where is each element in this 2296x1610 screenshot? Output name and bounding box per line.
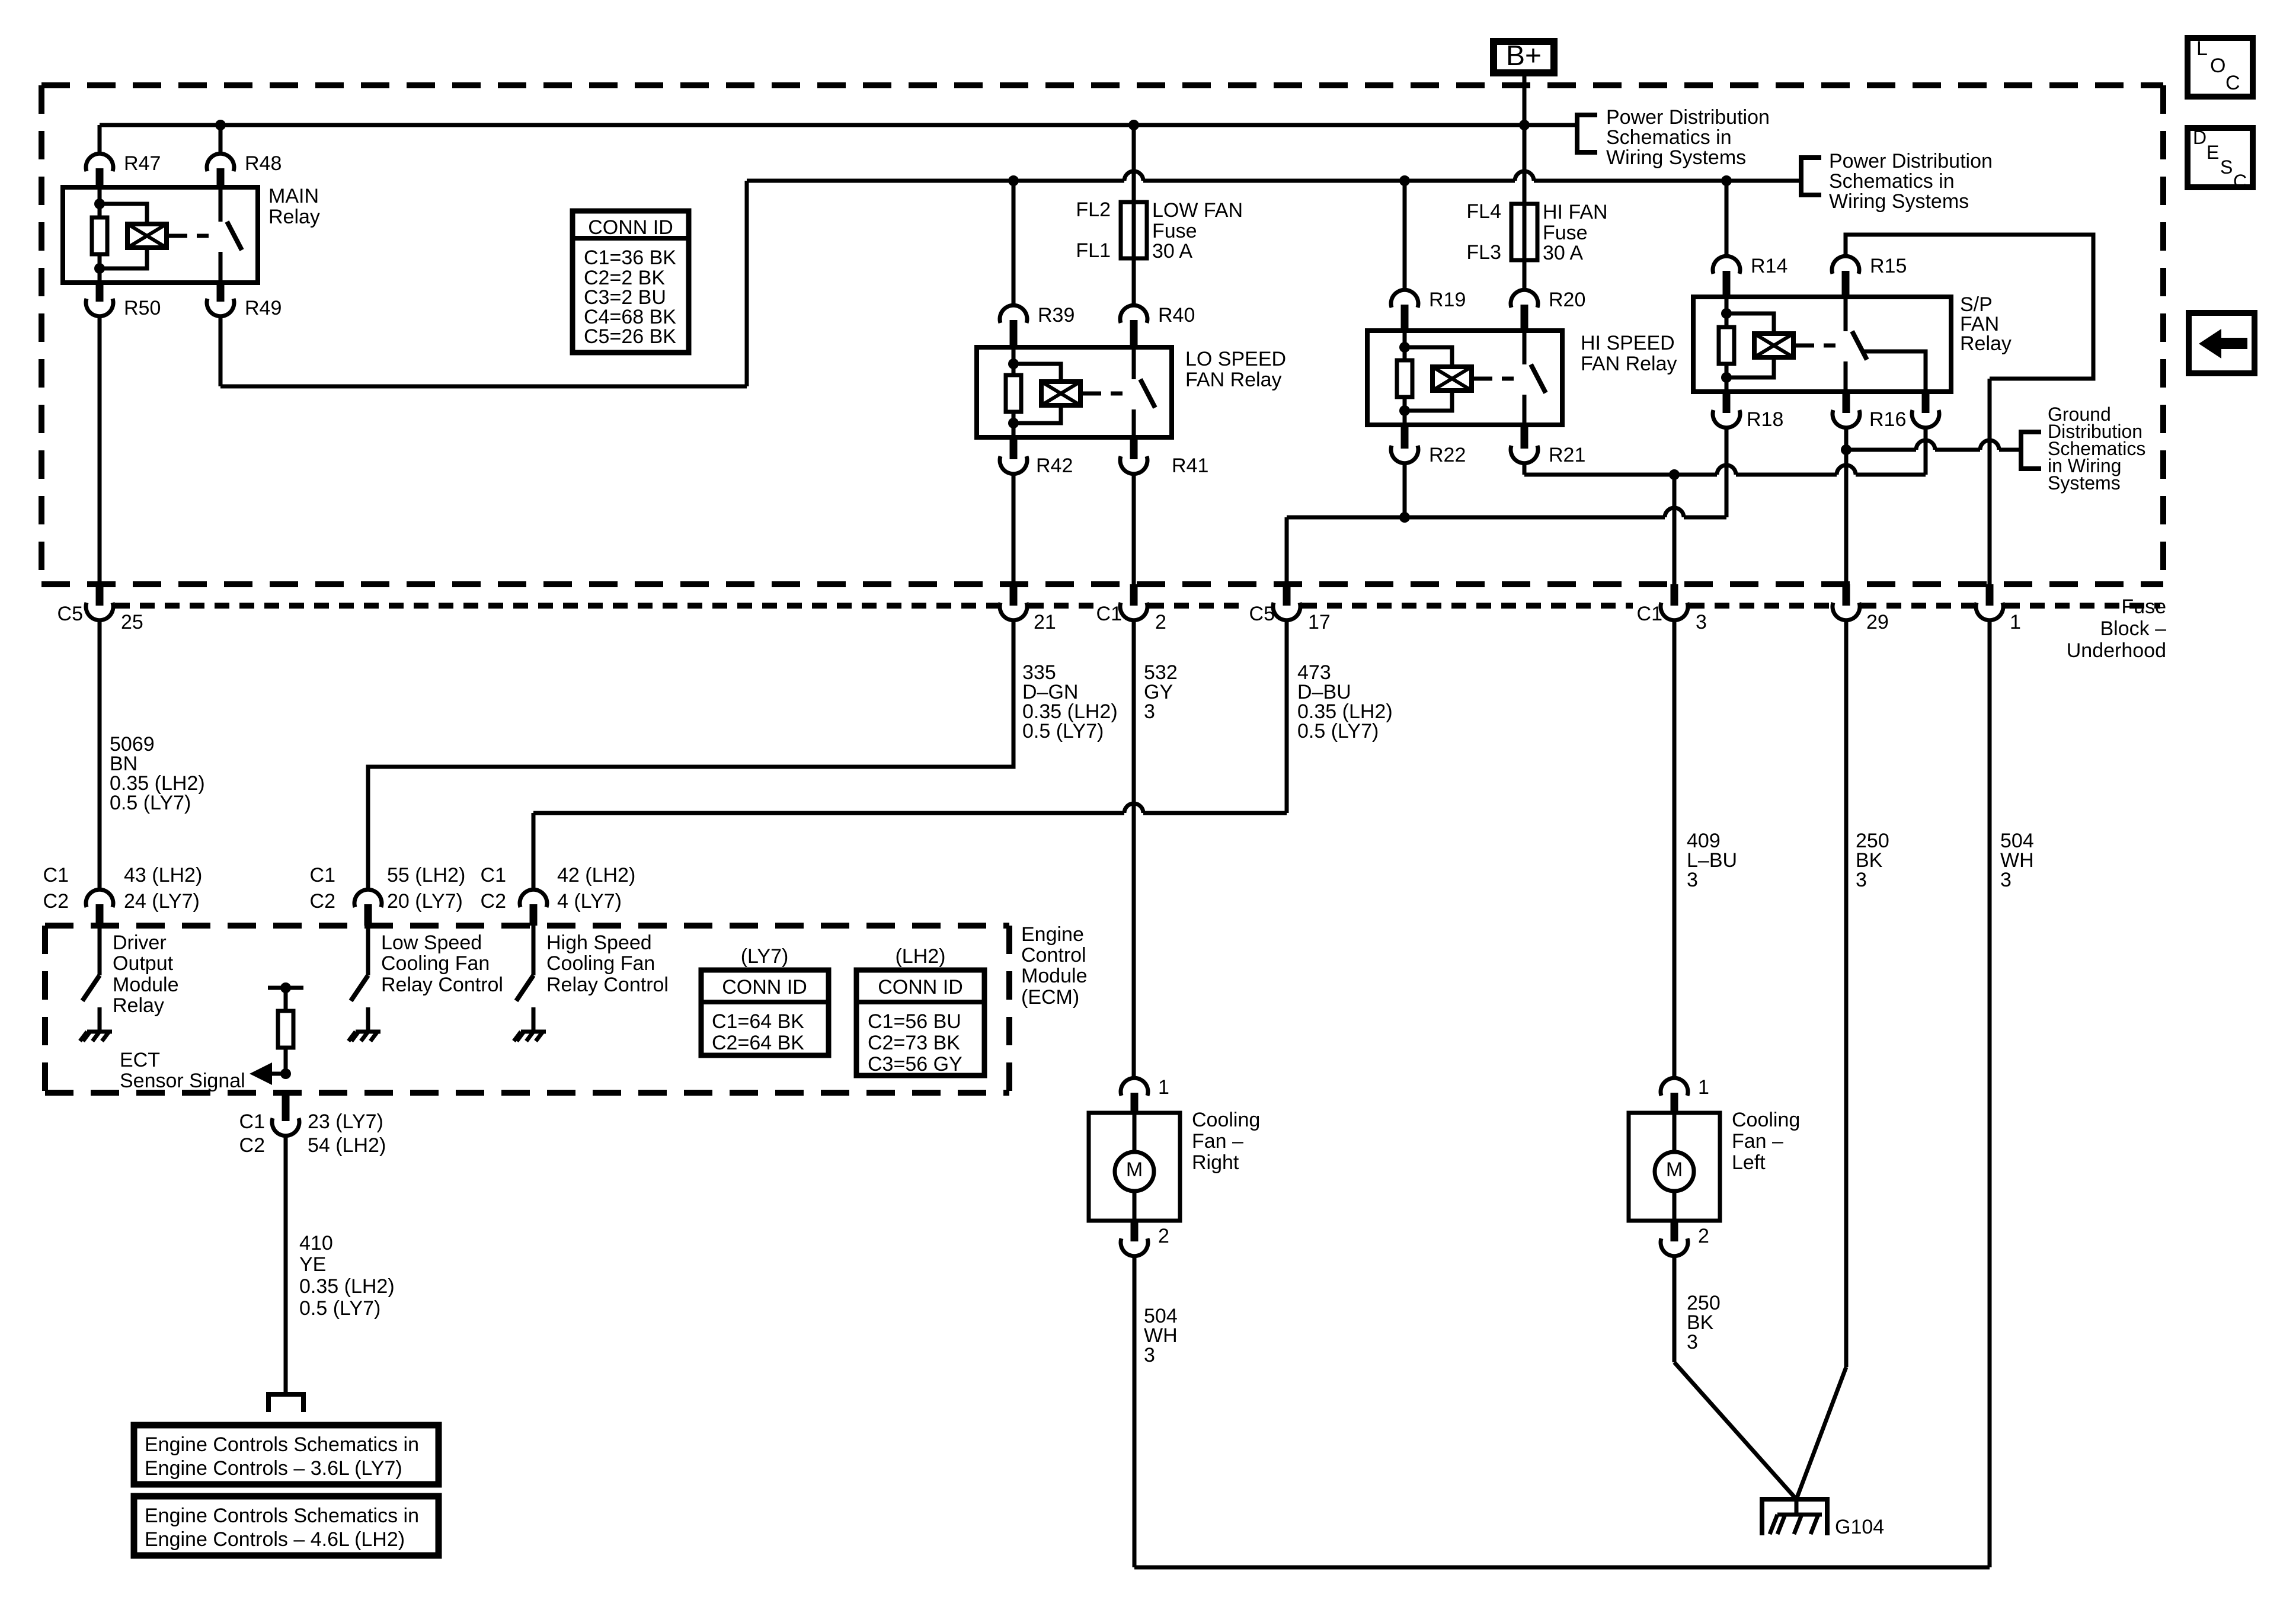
- svg-text:CONN ID: CONN ID: [722, 976, 807, 998]
- svg-text:0.5 (LY7): 0.5 (LY7): [1022, 720, 1104, 742]
- svg-text:C1=36 BK: C1=36 BK: [584, 247, 676, 269]
- svg-text:Module: Module: [113, 974, 179, 996]
- pin 29: [1843, 584, 1850, 606]
- svg-text:1: 1: [1698, 1076, 1709, 1099]
- svg-text:23 (LY7): 23 (LY7): [308, 1110, 383, 1133]
- svg-text:410: 410: [299, 1232, 333, 1254]
- svg-text:Block –: Block –: [2100, 617, 2167, 640]
- svg-text:Fuse: Fuse: [1152, 220, 1197, 242]
- LO SPEED relay actuator dashed link: [1089, 392, 1127, 396]
- svg-text:Engine: Engine: [1021, 923, 1084, 946]
- pin R19: [1391, 290, 1418, 308]
- ECT signal node dot: [280, 1068, 291, 1079]
- driver output module relay ground stub: [98, 1007, 102, 1032]
- MAIN relay switch output contact: [219, 252, 223, 283]
- relay MAIN Relay box: [63, 187, 258, 283]
- pin R16: [1843, 392, 1850, 413]
- svg-text:1: 1: [1158, 1076, 1169, 1099]
- svg-text:R49: R49: [245, 297, 282, 319]
- svg-text:25: 25: [121, 611, 143, 633]
- HI SPEED relay internal node dot upper: [1399, 342, 1410, 353]
- svg-text:Relay: Relay: [268, 206, 320, 228]
- svg-text:Underhood: Underhood: [2067, 639, 2166, 662]
- svg-text:29: 29: [1866, 611, 1889, 633]
- svg-text:C3=56 GY: C3=56 GY: [868, 1053, 962, 1076]
- MAIN relay coil-side wire: [98, 187, 102, 283]
- wire 5069 BN from pin 25 to ECM relay pin: [98, 619, 102, 891]
- S/P relay internal node dot lower: [1721, 372, 1732, 383]
- pin R47: [86, 153, 113, 171]
- pin C5-17: [1283, 584, 1291, 606]
- wire 250 BK from left fan pin 2 to G104: [1673, 1255, 1677, 1362]
- wire bus1 down to pin R47: [98, 125, 102, 155]
- svg-text:30 A: 30 A: [1543, 242, 1583, 264]
- svg-text:LOW FAN: LOW FAN: [1152, 199, 1243, 222]
- reference box Engine Controls 3.6L LY7: [134, 1425, 439, 1484]
- off-page bracket Power Distribution (bus 1): [1577, 115, 1597, 152]
- svg-text:Schematics in: Schematics in: [1829, 170, 1955, 193]
- ECT sensor pull-up bar: [268, 986, 303, 990]
- svg-text:CONN ID: CONN ID: [588, 216, 673, 239]
- svg-text:Cooling: Cooling: [1192, 1109, 1260, 1131]
- svg-text:0.5 (LY7): 0.5 (LY7): [299, 1297, 380, 1320]
- pin 2 of Cooling Fan - Left: [1671, 1221, 1678, 1241]
- svg-text:CONN ID: CONN ID: [878, 976, 963, 998]
- svg-text:FAN Relay: FAN Relay: [1581, 353, 1677, 375]
- ground G104 symbol: [1762, 1499, 1827, 1535]
- svg-text:Engine Controls Schematics in: Engine Controls Schematics in: [145, 1505, 419, 1527]
- driver output module relay switch blade: [82, 975, 100, 1001]
- svg-text:Power Distribution: Power Distribution: [1829, 150, 1993, 172]
- junction dot bus1 / B+: [1519, 120, 1530, 130]
- pin R50: [96, 283, 104, 302]
- S/P relay switch output contact: [1844, 361, 1848, 392]
- pin R42: [1010, 437, 1018, 459]
- svg-text:R18: R18: [1747, 408, 1783, 431]
- wire ground node to Ground Distribution bracket: [1846, 448, 1916, 452]
- svg-text:Relay Control: Relay Control: [381, 974, 503, 996]
- wire B+ node down to fuse FL4: [1523, 125, 1527, 204]
- wire 504 WH from pin 1 down right side: [1988, 619, 1992, 1567]
- wire riser up to bus 2: [745, 181, 749, 386]
- svg-text:3: 3: [1687, 1331, 1698, 1353]
- svg-text:2: 2: [1698, 1225, 1709, 1247]
- svg-text:C5: C5: [57, 603, 83, 625]
- svg-text:Fan –: Fan –: [1732, 1130, 1783, 1153]
- reference box Engine Controls 4.6L LH2: [134, 1496, 439, 1555]
- high speed cooling fan relay control switch blade: [516, 975, 533, 1001]
- CONN ID table LY7: [701, 970, 829, 1055]
- pin R15: [1832, 256, 1859, 274]
- wire B+ down to bus 1: [1523, 76, 1527, 125]
- svg-text:M: M: [1666, 1158, 1683, 1181]
- low speed cooling fan relay control ground stub: [366, 1007, 370, 1032]
- svg-text:1: 1: [2010, 611, 2021, 633]
- S/P relay coil: [1754, 334, 1793, 357]
- wire 250 BK right branch diagonal to G104: [1796, 1367, 1846, 1499]
- HI SPEED relay internal node dot lower: [1399, 405, 1410, 416]
- svg-text:FAN Relay: FAN Relay: [1185, 369, 1282, 391]
- svg-text:2: 2: [1158, 1225, 1169, 1247]
- svg-text:C5: C5: [1249, 603, 1275, 625]
- svg-text:C2=64 BK: C2=64 BK: [712, 1032, 804, 1054]
- wire bus1 down to pin R48: [219, 125, 223, 155]
- fuse block connector row dotted line: [115, 603, 998, 609]
- MAIN relay actuator dashed link: [175, 234, 213, 238]
- svg-text:0.35 (LH2): 0.35 (LH2): [299, 1275, 395, 1298]
- svg-text:L: L: [2196, 37, 2208, 60]
- svg-text:Systems: Systems: [2048, 472, 2121, 494]
- svg-text:Sensor Signal: Sensor Signal: [120, 1070, 245, 1092]
- svg-text:Fan –: Fan –: [1192, 1130, 1243, 1153]
- svg-text:R40: R40: [1158, 304, 1195, 327]
- svg-text:C1: C1: [310, 864, 335, 886]
- pin ECM C1-43 / C2-24: [98, 889, 102, 893]
- svg-text:Wiring Systems: Wiring Systems: [1829, 190, 1969, 213]
- wire 250 BK from pin 29 toward G104: [1844, 619, 1849, 1367]
- motor Cooling Fan - Right M symbol: [1133, 1113, 1137, 1152]
- fuse LOW FAN Fuse 30 A (FL2/FL1): [1132, 202, 1136, 258]
- MAIN relay coil loop wire: [100, 204, 147, 268]
- svg-text:Relay: Relay: [113, 994, 164, 1017]
- svg-text:0.5 (LY7): 0.5 (LY7): [1297, 720, 1379, 742]
- junction dot bus1 / FL2 fuse feed: [1128, 120, 1139, 130]
- svg-text:R22: R22: [1429, 444, 1466, 466]
- svg-text:M: M: [1126, 1158, 1143, 1181]
- S/P relay internal resistor: [1719, 327, 1734, 364]
- svg-text:Low Speed: Low Speed: [381, 932, 482, 954]
- wire fuse FL1 down to pin R40: [1132, 258, 1136, 306]
- svg-text:Fuse: Fuse: [2121, 596, 2166, 618]
- motor Cooling Fan - Left M symbol: [1673, 1113, 1677, 1152]
- svg-text:Cooling Fan: Cooling Fan: [546, 952, 655, 975]
- svg-text:Wiring Systems: Wiring Systems: [1606, 146, 1746, 169]
- svg-text:Cooling Fan: Cooling Fan: [381, 952, 490, 975]
- S/P relay switch output branch wire: [1864, 351, 1926, 392]
- fuse HI FAN Fuse 30 A (FL4/FL3): [1523, 204, 1527, 260]
- wire R42 down to fuse block pin 21: [1012, 473, 1016, 584]
- svg-text:2: 2: [1155, 611, 1166, 633]
- svg-text:FL2: FL2: [1076, 199, 1111, 221]
- svg-text:C2: C2: [310, 890, 335, 913]
- svg-text:C2: C2: [239, 1134, 265, 1157]
- high speed cooling fan relay control switch wire: [532, 926, 536, 975]
- S/P relay coil actuator stub: [1793, 344, 1802, 348]
- svg-text:FL3: FL3: [1466, 241, 1501, 264]
- svg-text:3: 3: [1696, 611, 1707, 633]
- wire bus2 down to pin R39: [1012, 181, 1016, 306]
- svg-text:21: 21: [1034, 611, 1056, 633]
- junction dot R16 ground node: [1841, 444, 1851, 455]
- low speed cooling fan relay control switch blade: [351, 975, 368, 1001]
- DESC reference box: [2188, 128, 2253, 187]
- HI SPEED relay coil loop wire: [1405, 347, 1452, 411]
- svg-text:R20: R20: [1549, 289, 1585, 311]
- pin R20: [1511, 290, 1538, 308]
- svg-text:Engine Controls – 4.6L (LH2): Engine Controls – 4.6L (LH2): [145, 1528, 405, 1551]
- wire R18 down to control node: [1725, 427, 1729, 517]
- MAIN relay coil: [127, 224, 167, 248]
- svg-text:(LH2): (LH2): [895, 945, 945, 968]
- pin R18: [1723, 392, 1731, 413]
- svg-text:G104: G104: [1835, 1516, 1884, 1538]
- junction dot bus1 / R48: [215, 120, 226, 130]
- svg-text:YE: YE: [299, 1253, 326, 1276]
- svg-text:R50: R50: [124, 297, 161, 319]
- svg-text:20 (LY7): 20 (LY7): [387, 890, 463, 913]
- low speed cooling fan relay control switch wire: [366, 926, 370, 975]
- junction dot bus2 / R39: [1008, 175, 1019, 186]
- MAIN relay switch fixed contact: [219, 187, 223, 222]
- CONN ID table LH2: [856, 970, 984, 1076]
- pin R48: [207, 153, 234, 171]
- svg-text:(LY7): (LY7): [741, 945, 789, 968]
- svg-text:C1=56 BU: C1=56 BU: [868, 1010, 961, 1033]
- svg-text:Cooling: Cooling: [1732, 1109, 1800, 1131]
- svg-text:C1: C1: [1637, 603, 1662, 625]
- MAIN relay internal node dot upper: [94, 199, 105, 209]
- ECT node dot upper: [280, 982, 291, 993]
- svg-text:Relay Control: Relay Control: [546, 974, 669, 996]
- svg-text:C1=64 BK: C1=64 BK: [712, 1010, 804, 1033]
- motor Cooling Fan - Right box: [1089, 1113, 1180, 1221]
- S/P relay coil-side wire: [1725, 297, 1729, 392]
- svg-text:C1: C1: [239, 1110, 265, 1133]
- pin ECM C1-55 / C2-20: [354, 889, 382, 907]
- Fuse Block - Underhood dashed boundary box: [41, 82, 2163, 88]
- svg-text:High Speed: High Speed: [546, 932, 652, 954]
- LO SPEED relay coil: [1041, 382, 1080, 405]
- svg-text:3: 3: [1687, 869, 1698, 891]
- HI SPEED relay switch blade: [1531, 364, 1546, 393]
- HI SPEED relay coil-side wire: [1403, 331, 1407, 425]
- svg-text:3: 3: [1144, 700, 1155, 723]
- wire R22 down to control node: [1403, 462, 1407, 517]
- svg-text:24 (LY7): 24 (LY7): [124, 890, 200, 913]
- svg-text:FL4: FL4: [1466, 200, 1501, 223]
- svg-text:O: O: [2210, 55, 2225, 77]
- B+ battery feed box: [1494, 41, 1554, 73]
- svg-text:17: 17: [1308, 611, 1331, 633]
- svg-text:(ECM): (ECM): [1021, 986, 1079, 1009]
- svg-text:R15: R15: [1870, 255, 1907, 277]
- wire R15 feed loop from fuse block pin 1: [1846, 235, 2093, 379]
- pin 1: [1986, 584, 1994, 606]
- svg-text:3: 3: [2000, 869, 2012, 891]
- pin R21: [1521, 425, 1528, 449]
- svg-text:R19: R19: [1429, 289, 1466, 311]
- pin C1-3: [1671, 584, 1678, 606]
- pin C5-25: [96, 584, 104, 606]
- low speed cooling fan relay control ground symbol: [356, 1030, 380, 1034]
- wire R21 down to S/P output net: [1523, 462, 1527, 475]
- wire bus1 down to fuse FL2: [1132, 125, 1136, 202]
- pin R41: [1130, 437, 1138, 459]
- driver output module relay ground symbol: [87, 1030, 112, 1034]
- pin 1 of Cooling Fan - Left: [1661, 1078, 1688, 1096]
- junction dot bus2 / R19: [1399, 175, 1410, 186]
- 410 wire destination connector symbol: [268, 1394, 303, 1412]
- wire 504 WH from right fan pin 2 to bottom run: [1133, 1255, 1137, 1567]
- high speed cooling fan relay control ground stub: [532, 1007, 536, 1032]
- wire 532 GY from pin C1-2 to right fan: [1132, 619, 1136, 1079]
- LO SPEED relay coil-side wire: [1012, 347, 1016, 437]
- wire control node down to fuse block pin C5-17: [1285, 517, 1289, 584]
- HI SPEED relay coil actuator stub: [1472, 377, 1480, 381]
- MAIN relay internal node dot lower: [94, 263, 105, 274]
- relay LO SPEED FAN Relay box: [977, 347, 1172, 437]
- pin 1 of Cooling Fan - Right: [1121, 1078, 1148, 1096]
- svg-text:C1: C1: [43, 864, 69, 886]
- svg-text:55 (LH2): 55 (LH2): [387, 864, 465, 886]
- svg-text:R14: R14: [1751, 255, 1787, 277]
- MAIN relay coil actuator stub: [167, 234, 175, 238]
- svg-text:0.5 (LY7): 0.5 (LY7): [110, 792, 191, 814]
- svg-text:HI FAN: HI FAN: [1543, 201, 1608, 223]
- svg-text:HI SPEED: HI SPEED: [1581, 332, 1675, 354]
- wire bus2 down to pin R19: [1403, 181, 1407, 291]
- pin R40: [1120, 305, 1147, 323]
- Engine Control Module dashed boundary box: [45, 923, 1009, 929]
- wire bus 1 (battery feed rail): [100, 123, 1577, 127]
- wire R49 to riser: [219, 315, 223, 386]
- svg-text:C: C: [2225, 72, 2240, 94]
- svg-text:3: 3: [1856, 869, 1867, 891]
- wire R16 down to ground node: [1844, 427, 1849, 450]
- svg-text:Right: Right: [1192, 1151, 1239, 1174]
- HI SPEED relay switch output contact: [1523, 395, 1527, 425]
- wire 409 net down to fuse block pin C1-3: [1673, 475, 1677, 584]
- off-page bracket Ground Distribution: [2021, 432, 2041, 469]
- svg-text:42 (LH2): 42 (LH2): [557, 864, 635, 886]
- svg-text:LO SPEED: LO SPEED: [1185, 348, 1286, 370]
- wire bus2 down to pin R14: [1725, 181, 1729, 257]
- wire fuse FL3 down to pin R20: [1523, 260, 1527, 291]
- svg-text:C2: C2: [43, 890, 69, 913]
- S/P relay actuator dashed link: [1802, 344, 1838, 348]
- wire 335 D-GN from pin 21 to ECM low speed control: [368, 619, 1013, 891]
- svg-text:Engine Controls – 3.6L (LY7): Engine Controls – 3.6L (LY7): [145, 1457, 402, 1480]
- svg-text:Control: Control: [1021, 944, 1086, 966]
- wire 409 L-BU from pin C1-3 to left fan: [1673, 619, 1677, 1079]
- svg-text:R16: R16: [1869, 408, 1906, 431]
- LO SPEED relay switch fixed contact: [1132, 347, 1136, 379]
- svg-text:D: D: [2193, 127, 2207, 148]
- svg-text:Output: Output: [113, 952, 174, 975]
- svg-text:Power Distribution: Power Distribution: [1606, 106, 1770, 129]
- S/P relay output pin: [1922, 392, 1930, 413]
- pin C1-2: [1130, 584, 1138, 606]
- svg-text:R48: R48: [245, 152, 282, 175]
- HI SPEED relay actuator dashed link: [1480, 377, 1517, 381]
- wire bus 2 (relay feed rail): [747, 179, 1124, 183]
- svg-text:Engine Controls Schematics in: Engine Controls Schematics in: [145, 1433, 419, 1456]
- svg-text:Relay: Relay: [1960, 332, 2012, 355]
- MAIN relay internal resistor: [92, 217, 107, 254]
- svg-text:C2=73 BK: C2=73 BK: [868, 1032, 960, 1054]
- svg-text:C2: C2: [481, 890, 506, 913]
- svg-text:Schematics in: Schematics in: [1606, 126, 1732, 149]
- svg-text:MAIN: MAIN: [268, 185, 319, 207]
- svg-text:C: C: [2233, 171, 2247, 192]
- svg-text:4 (LY7): 4 (LY7): [557, 890, 622, 913]
- S/P relay internal node dot upper: [1721, 308, 1732, 319]
- wire 410 YE from ECM to engine controls: [284, 1135, 288, 1394]
- junction dot bus2 / R14: [1721, 175, 1732, 186]
- wire ground node down to fuse block pin 29: [1844, 450, 1849, 584]
- svg-text:E: E: [2207, 142, 2219, 163]
- junction dot 409 net / S-P output run: [1669, 469, 1680, 480]
- HI SPEED relay internal resistor: [1397, 360, 1412, 397]
- svg-text:Driver: Driver: [113, 932, 167, 954]
- ECT sensor signal arrow: [272, 1072, 286, 1076]
- svg-text:C5=26 BK: C5=26 BK: [584, 325, 676, 348]
- svg-text:ECT: ECT: [120, 1049, 160, 1071]
- pin ECM C1-23 / C2-54: [282, 1093, 290, 1121]
- relay S/P FAN Relay box: [1693, 297, 1951, 392]
- svg-text:C1: C1: [1096, 603, 1122, 625]
- LO SPEED relay switch output contact: [1132, 409, 1136, 437]
- svg-text:R39: R39: [1038, 304, 1075, 327]
- LO SPEED relay coil actuator stub: [1080, 392, 1089, 396]
- ECT resistor: [278, 1011, 293, 1048]
- HI SPEED relay coil: [1432, 367, 1472, 391]
- off-page bracket Power Distribution (bus 2): [1801, 158, 1821, 195]
- wire R41 down to fuse block pin C1-2: [1132, 473, 1136, 584]
- svg-text:FL1: FL1: [1076, 239, 1111, 262]
- CONN ID table (fuse block underhood): [573, 211, 689, 353]
- svg-text:R42: R42: [1036, 454, 1073, 477]
- back arrow reference box: [2189, 313, 2255, 373]
- wire R50 down to fuse block pin 25: [98, 315, 102, 584]
- LOC reference box: [2188, 38, 2253, 97]
- wire S/P output pin down to output run: [1924, 427, 1928, 475]
- junction dot R22 / 473 control net: [1399, 512, 1410, 523]
- pin 2 of Cooling Fan - Right: [1131, 1221, 1139, 1241]
- relay HI SPEED FAN Relay box: [1367, 331, 1562, 425]
- wire 473 D-BU from pin C5-17 to ECM high speed control: [1285, 619, 1289, 813]
- S/P relay switch fixed contact: [1844, 297, 1848, 331]
- pin R22: [1401, 425, 1409, 449]
- HI SPEED relay switch fixed contact: [1523, 331, 1527, 364]
- pin R49: [217, 283, 225, 302]
- motor Cooling Fan - Left box: [1629, 1113, 1720, 1221]
- pin ECM C1-42 / C2-4: [520, 889, 547, 907]
- svg-text:B+: B+: [1506, 40, 1542, 72]
- pin 21: [1010, 584, 1018, 606]
- wire S/P output net horizontal run: [1524, 473, 1717, 477]
- svg-text:R21: R21: [1549, 444, 1585, 466]
- svg-text:43 (LH2): 43 (LH2): [124, 864, 202, 886]
- pin R14: [1713, 256, 1740, 274]
- svg-text:C1: C1: [481, 864, 506, 886]
- svg-text:Fuse: Fuse: [1543, 222, 1588, 244]
- S/P relay switch blade: [1852, 331, 1867, 360]
- wire high speed control node (473 net upper run): [1287, 516, 1665, 520]
- svg-text:Module: Module: [1021, 965, 1088, 987]
- LO SPEED relay internal node dot lower: [1008, 418, 1019, 428]
- svg-text:3: 3: [1144, 1344, 1155, 1366]
- MAIN relay switch blade: [227, 222, 242, 250]
- svg-text:Left: Left: [1732, 1151, 1766, 1174]
- LO SPEED relay switch blade: [1140, 379, 1155, 408]
- high speed cooling fan relay control ground symbol: [521, 1030, 546, 1034]
- LO SPEED relay coil loop wire: [1013, 364, 1061, 423]
- LO SPEED relay internal resistor: [1006, 375, 1021, 412]
- LO SPEED relay internal node dot upper: [1008, 359, 1019, 369]
- svg-text:R41: R41: [1172, 454, 1208, 477]
- svg-text:R47: R47: [124, 152, 161, 175]
